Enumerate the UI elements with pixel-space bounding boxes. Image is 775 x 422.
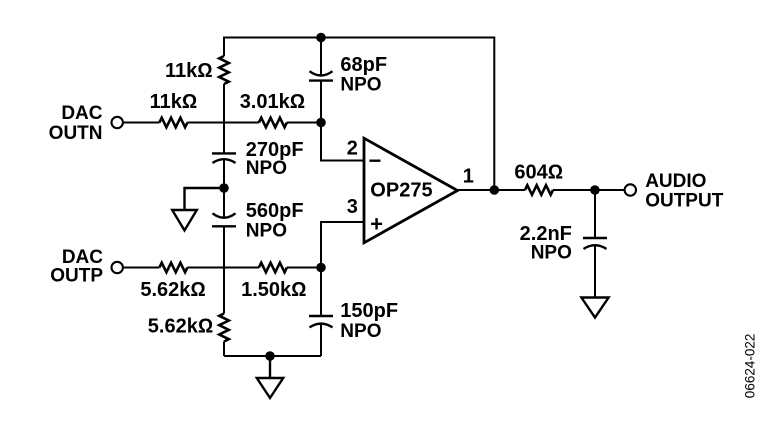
wire top feedback rail: [224, 37, 494, 39]
svg-text:AUDIO: AUDIO: [645, 171, 706, 192]
resistor 5.62k horizontal: [159, 263, 187, 273]
svg-text:560pF: 560pF: [246, 200, 304, 222]
ground bottom: [257, 356, 283, 398]
wire P row to node: [287, 267, 321, 269]
svg-text:5.62kΩ: 5.62kΩ: [140, 279, 205, 301]
svg-text:OP275: OP275: [370, 179, 432, 201]
ground right: [581, 298, 608, 318]
resistor 11k horizontal: [159, 118, 187, 128]
svg-text:NPO: NPO: [246, 220, 287, 241]
svg-text:+: +: [370, 211, 383, 236]
svg-text:1.50kΩ: 1.50kΩ: [241, 279, 306, 301]
terminal DAC OUTP circle: [112, 262, 123, 273]
wire left column to N row and 270pF: [223, 84, 225, 153]
wire 2.2nF branch upper: [594, 190, 596, 238]
svg-text:68pF: 68pF: [340, 54, 387, 76]
svg-text:3: 3: [347, 196, 358, 218]
wire pin2 jog: [321, 123, 364, 161]
svg-text:OUTP: OUTP: [50, 265, 103, 286]
wire output row: [458, 189, 526, 191]
terminal DAC OUTN circle: [112, 117, 123, 128]
svg-text:OUTPUT: OUTPUT: [645, 191, 724, 212]
node top 68pF junction: [316, 33, 326, 43]
wire 560pF to P row: [223, 226, 225, 313]
wire left column to bottom rail: [223, 342, 225, 357]
svg-text:11kΩ: 11kΩ: [150, 91, 198, 113]
svg-text:DAC: DAC: [61, 103, 102, 124]
svg-text:11kΩ: 11kΩ: [165, 60, 213, 82]
svg-text:NPO: NPO: [340, 75, 381, 96]
wire 68pF branch upper: [320, 38, 322, 76]
resistor 604 horizontal: [525, 185, 553, 195]
wire 270pF to mid node: [223, 160, 225, 218]
svg-text:−: −: [369, 148, 382, 173]
wire 150pF branch upper: [320, 268, 322, 317]
svg-text:OUTN: OUTN: [49, 123, 103, 144]
capacitor 270pF: [212, 153, 236, 163]
svg-text:06624-022: 06624-022: [742, 334, 757, 399]
op-amp OP275 triangle: [364, 138, 458, 243]
wire N row to node: [287, 122, 321, 124]
wire feedback vertical drop: [493, 37, 495, 191]
resistor 3.01k horizontal: [259, 118, 287, 128]
wire P row lead-in: [123, 267, 159, 269]
resistor 11k vertical: [219, 56, 229, 84]
node P row junction: [316, 263, 326, 273]
wire 150pF to bottom rail: [320, 324, 322, 356]
capacitor 2.2nF: [583, 238, 607, 249]
node N row junction: [316, 118, 326, 128]
svg-text:5.62kΩ: 5.62kΩ: [148, 315, 213, 337]
wire N row middle: [187, 122, 259, 124]
wire bottom rail: [224, 355, 321, 357]
ground mid-left: [172, 188, 224, 230]
wire left column upper: [223, 37, 225, 57]
terminal AUDIO OUTPUT circle: [625, 184, 636, 195]
svg-text:604Ω: 604Ω: [514, 161, 563, 183]
svg-text:3.01kΩ: 3.01kΩ: [240, 91, 305, 113]
node bottom ground junction: [265, 351, 275, 361]
wire output to terminal: [553, 189, 625, 191]
svg-text:1: 1: [463, 166, 474, 188]
node output cap junction: [590, 185, 600, 195]
wire 2.2nF to ground: [594, 246, 596, 298]
svg-text:NPO: NPO: [246, 158, 287, 179]
wire 68pF to N node: [320, 81, 322, 123]
wire pin3 jog: [321, 222, 364, 268]
node mid cap junction: [219, 183, 229, 193]
svg-text:NPO: NPO: [340, 321, 381, 342]
svg-text:150pF: 150pF: [340, 300, 398, 322]
wire P row middle: [187, 267, 259, 269]
capacitor 560pF: [212, 213, 236, 226]
node output feedback junction: [490, 185, 500, 195]
resistor 5.62k vertical: [219, 314, 229, 342]
svg-text:2: 2: [347, 138, 358, 160]
svg-text:NPO: NPO: [531, 242, 572, 263]
capacitor 68pF: [309, 71, 333, 80]
resistor 1.50k horizontal: [259, 263, 287, 273]
wire N row lead-in: [123, 122, 159, 124]
capacitor 150pF: [309, 316, 333, 327]
